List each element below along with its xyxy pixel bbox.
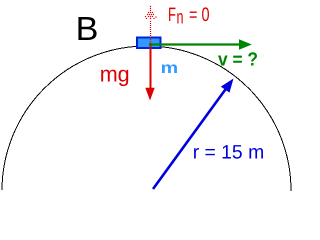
- svg-text:m: m: [161, 60, 179, 77]
- svg-text:= 0: = 0: [189, 4, 210, 26]
- svg-text:v = ?: v = ?: [218, 50, 258, 71]
- svg-text:n: n: [177, 7, 184, 29]
- svg-text:F: F: [168, 4, 176, 26]
- svg-text:r = 15 m: r = 15 m: [193, 142, 265, 164]
- svg-text:B: B: [76, 11, 99, 48]
- svg-text:mg: mg: [100, 62, 130, 87]
